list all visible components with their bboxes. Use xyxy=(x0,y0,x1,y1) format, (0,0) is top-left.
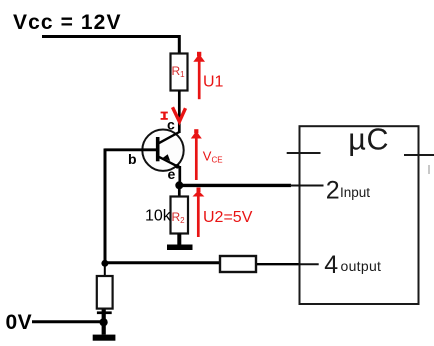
svg-text:c: c xyxy=(167,116,175,132)
svg-text:U1: U1 xyxy=(203,74,224,91)
svg-text:Input: Input xyxy=(340,185,370,200)
svg-text:b: b xyxy=(128,151,137,167)
svg-text:2: 2 xyxy=(326,177,340,205)
svg-text:U2=5V: U2=5V xyxy=(203,209,253,226)
svg-text:4: 4 xyxy=(324,251,338,279)
svg-text:e: e xyxy=(168,166,176,182)
svg-text:output: output xyxy=(341,258,382,274)
svg-text:10k: 10k xyxy=(145,208,172,225)
svg-text:0V: 0V xyxy=(6,311,33,334)
svg-text:Vcc = 12V: Vcc = 12V xyxy=(13,11,122,34)
svg-text:µC: µC xyxy=(348,123,389,157)
